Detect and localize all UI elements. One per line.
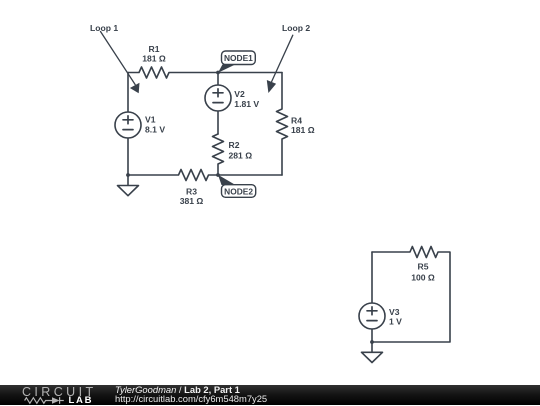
svg-text:V2: V2 [234,89,245,99]
svg-text:R1: R1 [149,44,160,54]
svg-text:R2: R2 [229,140,240,150]
svg-text:181 Ω: 181 Ω [291,125,315,135]
svg-text:Loop 2: Loop 2 [282,23,310,33]
svg-text:281 Ω: 281 Ω [229,151,253,161]
svg-text:8.1 V: 8.1 V [145,125,165,135]
svg-text:Loop 1: Loop 1 [90,23,118,33]
svg-text:V1: V1 [145,115,156,125]
svg-text:381 Ω: 381 Ω [180,196,204,206]
svg-text:1 V: 1 V [389,317,402,327]
svg-text:R5: R5 [418,262,429,272]
svg-text:100 Ω: 100 Ω [411,273,435,283]
svg-text:NODE2: NODE2 [224,186,253,196]
svg-text:NODE1: NODE1 [224,53,253,63]
svg-text:V3: V3 [389,307,400,317]
svg-text:1.81 V: 1.81 V [234,99,259,109]
svg-text:181 Ω: 181 Ω [142,54,166,64]
svg-text:R3: R3 [186,187,197,197]
